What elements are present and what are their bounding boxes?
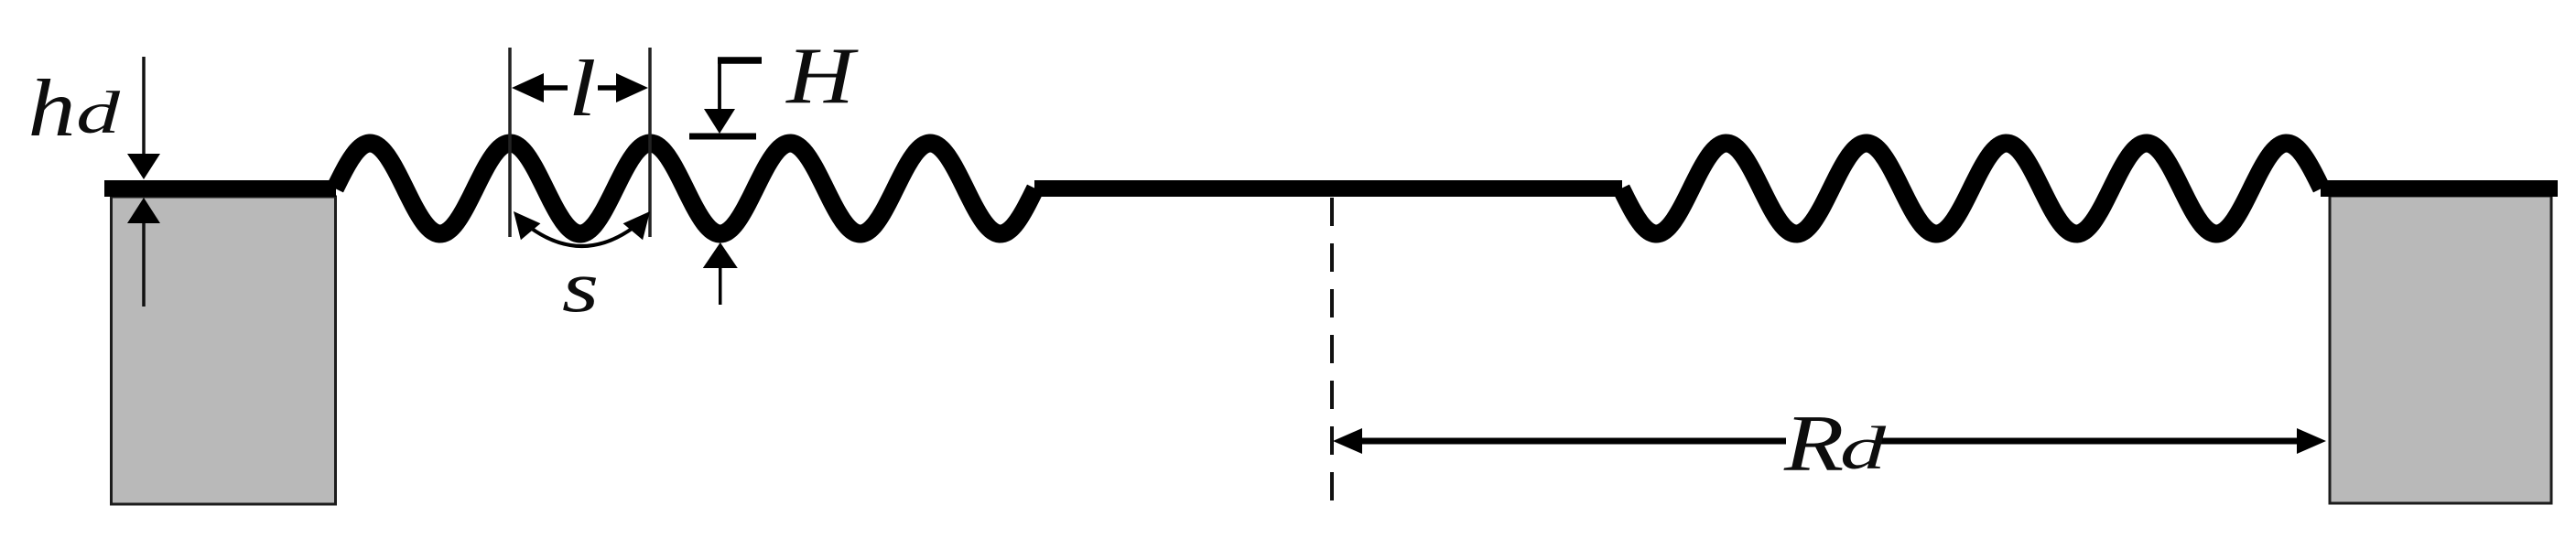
svg-text:s: s <box>562 247 599 328</box>
svg-text:R: R <box>1783 400 1844 489</box>
dimension l: right extension line (at wave crest) <box>648 48 652 237</box>
left pillar (substrate post) <box>112 197 336 504</box>
svg-text:d: d <box>76 79 121 145</box>
dimension l: right arrow <box>598 85 621 91</box>
dashed symmetry axis <box>1330 198 1334 505</box>
svg-text:h: h <box>28 63 76 153</box>
dimension H: up arrow at trough bottom <box>719 265 722 305</box>
svg-text:d: d <box>1840 414 1887 482</box>
right wrinkled wave section <box>1621 144 2322 234</box>
left wrinkled wave section <box>335 144 1035 234</box>
dimension Rd: left segment with left arrowhead at dashed axis <box>1348 438 1786 445</box>
right film bar on pillar <box>2321 180 2558 197</box>
svg-text:l: l <box>568 44 597 133</box>
dimension H: corner leader with down arrow <box>718 57 762 64</box>
left film bar on pillar <box>104 180 336 197</box>
dimension s: arc along one wave period <box>519 219 644 246</box>
dimension Rd: right segment with right arrowhead at pillar <box>1881 438 2312 445</box>
dimension l: left extension line (at wave crest) <box>508 48 512 237</box>
flat delaminated middle span <box>1034 180 1622 197</box>
dimension hd: lower arrow <box>142 220 146 307</box>
svg-text:H: H <box>785 31 859 121</box>
dimension hd: upper arrow <box>142 57 146 157</box>
dimension H: crest level tick <box>689 134 756 140</box>
right pillar (substrate post) <box>2330 196 2551 503</box>
dimension l: left arrow <box>542 85 568 91</box>
